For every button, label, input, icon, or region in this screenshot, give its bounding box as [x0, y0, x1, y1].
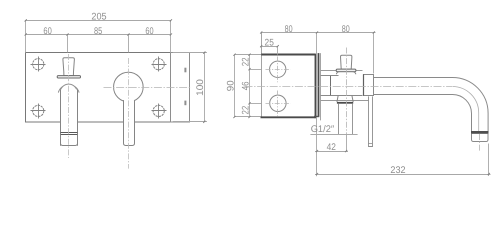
spout centerline horizontal — [245, 86, 453, 88]
handle dome outer front view — [58, 85, 79, 93]
handle dark band side view — [337, 102, 353, 104]
handle dome inner front view — [60, 84, 77, 91]
dimension 60/85/60 ticks — [25, 33, 172, 35]
screw hole bottom-left — [31, 104, 46, 119]
svg-text:80: 80 — [342, 24, 350, 35]
spout tube inner edge — [374, 94, 472, 131]
svg-text:90: 90 — [226, 80, 237, 91]
handle centerline extension — [346, 134, 348, 151]
handle centerline side view — [346, 48, 348, 135]
dimension 100 — [173, 53, 207, 122]
svg-text:60: 60 — [145, 26, 153, 37]
inlet circle top — [270, 61, 286, 77]
wall plate back line — [320, 53, 322, 120]
spout bend contour — [452, 87, 478, 132]
dimension 25 ticks — [260, 45, 279, 47]
handle dome side view — [336, 72, 356, 75]
lever rod side view — [369, 96, 373, 146]
in-wall body box left edge — [261, 33, 263, 118]
centerline handle vertical — [68, 54, 70, 158]
plate side profile — [171, 53, 190, 123]
wall plate bottom tick — [314, 116, 319, 118]
inlet circle bottom — [270, 95, 286, 111]
screw hole bottom-right — [152, 104, 167, 119]
inlet circle bottom centerlines — [266, 91, 291, 117]
dimension 90 line — [234, 55, 236, 117]
svg-text:22: 22 — [240, 106, 251, 115]
svg-text:42: 42 — [327, 142, 336, 153]
handle bell body front view — [61, 90, 78, 146]
faucet body inner cylinder side view — [321, 76, 363, 96]
aerator tip — [472, 134, 489, 142]
spout tube outer edge — [374, 78, 489, 132]
handle lower trapezoid side view — [337, 95, 353, 102]
dimension 80/80 line — [261, 33, 375, 177]
dimension 42 — [315, 151, 348, 153]
faucet body outer cylinder side view — [321, 71, 369, 101]
dimension 100 ticks — [203, 52, 205, 123]
dimension 205 line — [26, 20, 171, 52]
handle flange side view — [336, 69, 356, 72]
handle bell joint line — [61, 133, 78, 135]
svg-text:205: 205 — [91, 11, 106, 22]
chain tick line hole1 — [250, 69, 262, 71]
handle flange front view — [57, 76, 80, 78]
mounting plate front view — [26, 53, 171, 123]
chain tick line bottom — [235, 116, 261, 118]
mixer cartridge circle — [114, 72, 144, 102]
dimension 42 ticks — [316, 150, 347, 152]
in-wall body box right edge — [315, 54, 317, 118]
handle bell bottom cap — [61, 135, 78, 146]
handle bell side view — [339, 104, 353, 134]
dimension 22/46/22 line — [249, 55, 251, 117]
chain tick line hole2 — [250, 103, 262, 105]
svg-text:85: 85 — [94, 26, 102, 37]
svg-text:25: 25 — [265, 38, 274, 49]
aerator joint band — [471, 131, 489, 134]
screw hole top-right — [152, 57, 167, 72]
spout tip centerline — [479, 134, 481, 151]
svg-text:46: 46 — [240, 82, 251, 91]
dimension 80/80 ticks — [260, 31, 375, 33]
svg-text:22: 22 — [240, 58, 251, 67]
spout ring collar left edge dark — [363, 74, 365, 95]
dimension 25 — [260, 46, 278, 54]
dimension 232 — [315, 144, 491, 177]
lever rod joint line — [368, 143, 372, 145]
svg-text:100: 100 — [195, 79, 206, 96]
faucet body seam — [330, 76, 332, 95]
in-wall body box bottom edge — [261, 116, 316, 118]
dimension 205 ticks — [25, 19, 172, 21]
chain tick line top — [235, 54, 262, 56]
inlet circle top centerlines — [266, 57, 291, 83]
svg-text:60: 60 — [43, 26, 51, 37]
wall plate front face — [318, 53, 320, 116]
handle knob front view — [63, 58, 75, 76]
svg-text:232: 232 — [390, 165, 405, 176]
profile hole mark top — [184, 68, 186, 73]
dimension 22/46/22 ticks — [248, 54, 250, 119]
spout ring collar — [364, 75, 374, 96]
dimension 60/85/60 line — [26, 35, 171, 53]
svg-text:G1/2″: G1/2″ — [311, 124, 335, 135]
centerline horizontal left view — [104, 87, 191, 89]
screw hole top-left — [31, 57, 46, 72]
svg-text:80: 80 — [285, 24, 293, 35]
dimension 90 ticks — [233, 54, 235, 119]
profile hole mark bottom — [184, 101, 186, 106]
centerline mixer vertical — [128, 58, 130, 169]
dimension 232 ticks — [316, 173, 490, 175]
G1/2 leader underline — [310, 134, 357, 136]
mixer lever front view — [124, 100, 135, 145]
in-wall body box top edge — [261, 54, 316, 56]
handle knob side view — [341, 55, 352, 69]
